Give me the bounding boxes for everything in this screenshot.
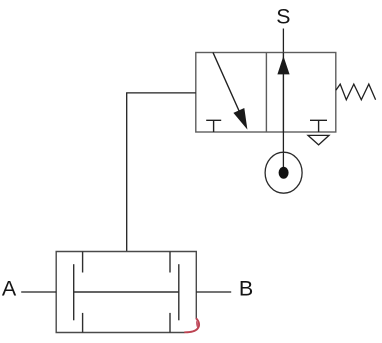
left upper seal line [82,252,84,273]
cylinder body (bottom-right corner open, overdrawn in red) [56,252,196,333]
wire S to valve port [282,29,284,53]
flow path arrow in right cell (supply to S) [282,53,284,133]
exhaust triangle below right cell [308,135,329,145]
wire valve bottom port to air supply [282,132,284,167]
left piston plate [73,264,75,320]
wire port A to cylinder [21,291,56,293]
piston rod [74,291,179,293]
red annotation mark at cylinder corner [184,318,199,332]
return spring on right side of valve [336,84,376,100]
svg-text:S: S [276,4,290,28]
right piston plate [178,264,180,320]
valve cell divider [265,53,267,133]
valve U1 body (3/2-way) [196,53,336,133]
right upper seal line [169,252,171,273]
svg-text:A: A [2,277,17,301]
svg-text:B: B [239,277,253,301]
compressed air supply source circle [265,152,302,193]
compressed air supply dot [279,167,289,179]
blocked port T in right cell [310,120,327,132]
flow path diagonal arrow in left cell [213,53,240,114]
blocked port T in left cell [206,120,221,132]
right lower seal line [169,313,171,333]
left lower seal line [82,313,84,333]
wire cylinder to port B [196,291,231,293]
pilot wire from valve left port to cylinder [127,93,196,252]
red annotation blob [196,321,198,328]
